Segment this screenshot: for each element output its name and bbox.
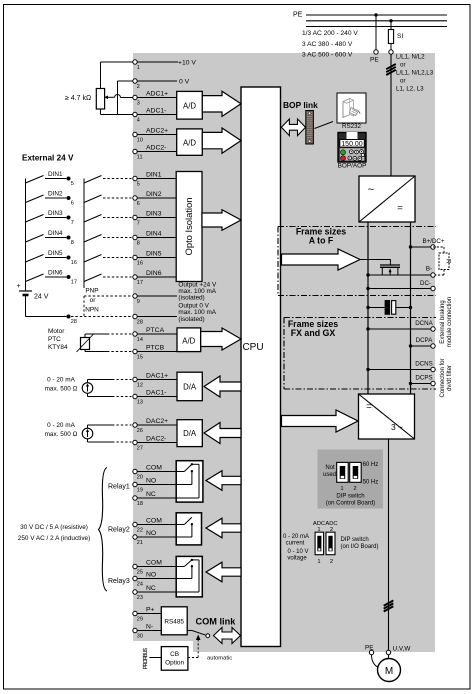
mains voltage text <box>302 30 358 59</box>
svg-text:(isolated): (isolated) <box>178 316 204 323</box>
terminal 8 (DIN4) <box>133 230 162 246</box>
label 50 Hz <box>363 480 379 486</box>
label ADC ADC <box>313 521 338 527</box>
svg-text:28: 28 <box>137 320 143 326</box>
label Connection for dv/dt filter (rotated) <box>440 358 453 397</box>
inverter block <box>359 394 415 439</box>
wire fuse to input terminal <box>390 44 392 50</box>
label RS232 <box>342 123 361 130</box>
terminal 11 (ADC2-) <box>133 144 167 160</box>
svg-text:PE: PE <box>293 12 303 19</box>
svg-text:or: or <box>400 62 406 69</box>
wire DIN1 to opto isolation <box>137 178 176 180</box>
terminal 29 (RS485 P+) <box>133 606 155 622</box>
svg-text:DIP switch: DIP switch <box>341 537 369 543</box>
terminal 28 (output 0V) <box>133 314 143 325</box>
svg-text:1: 1 <box>317 559 320 565</box>
svg-text:30: 30 <box>137 634 143 640</box>
wire DAC2- to D/A <box>137 442 177 444</box>
svg-text:250 V AC / 2 A (inductive): 250 V AC / 2 A (inductive) <box>18 535 90 542</box>
dashed wire CB option right <box>188 657 198 659</box>
svg-text:7: 7 <box>71 220 74 226</box>
terminal 14 (PTCA) <box>133 327 165 343</box>
label DCPS <box>415 375 432 382</box>
label Relay3 <box>108 578 130 585</box>
DIP switch 1 (control board) <box>337 462 349 482</box>
label DIP switch (on Control Board) <box>326 494 375 507</box>
terminal 30 (RS485 N-) <box>133 623 153 639</box>
svg-text:0 - 20 mA: 0 - 20 mA <box>283 534 309 540</box>
wire ADC2- to A/D <box>137 151 176 153</box>
wire DIN5 to opto isolation <box>137 257 176 259</box>
wire DC- line <box>368 288 431 290</box>
terminal U V W <box>386 650 390 654</box>
svg-text:27: 27 <box>137 446 143 452</box>
svg-text:~: ~ <box>368 184 374 196</box>
terminal 6 (DIN2) <box>133 191 162 207</box>
terminal 23 (relay3 NC) <box>133 585 156 601</box>
wire DCNA <box>368 328 431 330</box>
arrow CPU to relay1 <box>206 471 241 491</box>
CB option block <box>161 647 188 671</box>
svg-text:NO: NO <box>146 530 156 537</box>
svg-text:25: 25 <box>137 570 143 576</box>
terminal 7 (DIN3) <box>133 210 162 226</box>
wire N- to RS485 <box>137 630 161 632</box>
svg-text:24 V: 24 V <box>34 294 49 301</box>
terminal dot DIN6 bank1 <box>67 275 77 286</box>
gray panel notch bottom-left <box>133 641 193 652</box>
switch DIN3 bank2 <box>84 215 102 223</box>
label Motor PTC KTY84 <box>48 328 68 351</box>
dashed wire DIN6 <box>103 276 132 278</box>
terminal 24 (relay3 NO) <box>133 571 156 587</box>
arrow A/D1 to CPU <box>202 91 241 116</box>
svg-text:KTY84: KTY84 <box>48 344 68 351</box>
terminal 27 (DAC2-) <box>133 435 167 451</box>
svg-text:DAC1-: DAC1- <box>146 389 166 396</box>
svg-text:=: = <box>366 401 372 412</box>
label B+/DC+ <box>422 238 444 245</box>
D/A converter U5 (DAC2) <box>177 420 202 447</box>
terminal L/L1 input <box>389 50 393 54</box>
arrow CPU to braking chopper <box>282 249 361 270</box>
svg-text:15: 15 <box>137 355 143 361</box>
label input phase options <box>396 54 434 93</box>
svg-text:23: 23 <box>137 595 143 601</box>
svg-text:voltage: voltage <box>287 556 307 562</box>
wire mains input drop <box>390 54 392 176</box>
labels 1 2 above IO DIP <box>317 527 333 533</box>
svg-text:4: 4 <box>137 118 140 124</box>
svg-text:14: 14 <box>137 337 143 343</box>
junction B+ on right bus <box>409 245 412 248</box>
svg-text:B-: B- <box>426 266 432 273</box>
svg-text:DIN1: DIN1 <box>48 171 63 178</box>
label relay ratings <box>18 524 90 542</box>
terminal dot DIN5 bank1 <box>67 256 77 267</box>
label Output +24 V max 100 mA isolated <box>178 281 217 301</box>
svg-text:or: or <box>400 78 406 85</box>
RS485 block <box>161 607 187 635</box>
wire pot bottom to ADC1- <box>101 109 133 115</box>
junction on mains line 2 <box>389 19 392 22</box>
terminal 17 (DIN6) <box>133 270 162 286</box>
D/A converter U4 (DAC1) <box>177 372 202 401</box>
terminal 3 (ADC1+) <box>133 90 168 106</box>
DIP switch dark sub-panel <box>318 450 384 509</box>
labels 1 2 under control DIP <box>340 486 356 492</box>
switch DIN1 bank1 <box>26 171 67 183</box>
svg-text:DIN3: DIN3 <box>48 210 63 217</box>
label Frame sizes A to F <box>296 227 346 246</box>
svg-text:0 V: 0 V <box>179 79 190 86</box>
svg-text:DAC1+: DAC1+ <box>146 372 168 379</box>
svg-text:module connection: module connection <box>447 297 453 347</box>
CB option connector icon <box>143 647 149 669</box>
svg-text:ADC2+: ADC2+ <box>146 127 168 134</box>
battery 24 V <box>17 283 49 301</box>
svg-text:External 24 V: External 24 V <box>22 154 74 163</box>
dashed wire DIN2 <box>103 197 132 199</box>
dashed wire NPN to terminal 28 <box>71 316 132 318</box>
wire ADC2+ to A/D <box>137 134 176 136</box>
terminal 12 (DAC1+) <box>133 372 168 388</box>
junction DC- on left bus <box>366 287 369 290</box>
svg-text:NC: NC <box>146 585 156 592</box>
svg-text:3 AC 500 - 600 V: 3 AC 500 - 600 V <box>302 52 353 59</box>
terminal DC- <box>431 286 435 290</box>
svg-text:A to F: A to F <box>309 236 334 246</box>
switch automatic (COM link) <box>192 631 210 638</box>
svg-text:(isolated): (isolated) <box>178 295 204 302</box>
svg-text:Not: Not <box>325 465 335 471</box>
svg-text:DIN6: DIN6 <box>48 270 63 277</box>
svg-text:L/L1, N/L2: L/L1, N/L2 <box>396 54 425 61</box>
label B- <box>426 266 432 273</box>
label Not used <box>323 465 336 478</box>
svg-text:PTCA: PTCA <box>146 327 165 334</box>
BOP/AOP operator panel icon <box>338 132 366 162</box>
junction B- on left bus <box>366 273 369 276</box>
wire PTCA to A/D <box>137 333 177 335</box>
DIP switch 2 (control board) <box>350 462 362 482</box>
wire battery minus <box>26 295 67 317</box>
wire DAC1- to D/A <box>137 396 177 398</box>
svg-text:COM: COM <box>146 464 162 471</box>
label COM link <box>196 617 237 627</box>
wire RS485 to switch <box>187 630 192 632</box>
svg-text:17: 17 <box>71 280 77 286</box>
breaker slashes on mains input <box>386 64 396 75</box>
svg-text:Relay3: Relay3 <box>108 578 130 585</box>
svg-text:B+/DC+: B+/DC+ <box>422 238 444 245</box>
svg-text:M: M <box>385 666 393 677</box>
A/D converter U3 (PTC) <box>177 328 201 352</box>
svg-text:6: 6 <box>137 201 140 207</box>
wire +10V to potentiometer <box>101 62 133 89</box>
terminal 15 (PTCB) <box>133 344 165 360</box>
terminal 19 (relay1 NO) <box>133 477 156 493</box>
switch DIN5 bank1 <box>26 250 67 262</box>
CPU box <box>241 87 281 647</box>
arrow A/D2 to CPU <box>202 128 241 153</box>
svg-text:max. 500 Ω: max. 500 Ω <box>45 386 78 393</box>
label PE (terminal) <box>370 57 379 64</box>
svg-text:0 - 10 V: 0 - 10 V <box>287 549 308 555</box>
wire PTCB to A/D <box>137 351 177 353</box>
terminal 16 (DIN5) <box>133 250 162 266</box>
wire connector to CB option <box>149 657 161 659</box>
terminal 18 (relay1 NC) <box>133 491 156 507</box>
label 0 V <box>179 79 190 86</box>
junction on PE line <box>374 13 377 16</box>
svg-text:24: 24 <box>137 582 143 588</box>
label PNP or NPN <box>85 288 99 314</box>
dashed wire DIN5 <box>103 257 132 259</box>
wire P+ to RS485 <box>137 613 161 615</box>
svg-text:5: 5 <box>137 182 140 188</box>
label 0 - 20 mA current <box>283 534 309 547</box>
DIP switch 1 (I/O board) <box>315 532 324 555</box>
svg-text:22: 22 <box>137 528 143 534</box>
dashed vertical PNP-NPN <box>83 296 85 317</box>
switch DIN6 bank2 <box>84 274 102 282</box>
junction capacitor right <box>409 306 412 309</box>
terminal 4 (ADC1-) <box>133 107 167 123</box>
svg-text:26: 26 <box>137 428 143 434</box>
svg-text:NO: NO <box>146 477 156 484</box>
transistor Q1 braking chopper <box>380 265 400 275</box>
svg-text:8: 8 <box>137 241 140 247</box>
svg-text:8: 8 <box>71 240 74 246</box>
svg-text:12: 12 <box>137 383 143 389</box>
svg-text:External braking: External braking <box>440 300 446 343</box>
label DIP switch (on I/O Board) <box>341 537 379 550</box>
svg-text:DAC2+: DAC2+ <box>146 418 168 425</box>
RS232 connector icon box <box>337 93 366 123</box>
arrow CPU to relay2 <box>206 518 241 538</box>
svg-text:1: 1 <box>340 486 343 492</box>
svg-text:R: R <box>444 259 451 264</box>
svg-text:60 Hz: 60 Hz <box>363 462 379 468</box>
svg-text:+10 V: +10 V <box>178 60 196 67</box>
svg-text:ADC2-: ADC2- <box>146 144 166 151</box>
relay brace <box>99 468 108 592</box>
svg-text:Opto Isolation: Opto Isolation <box>183 198 194 256</box>
arrow CPU to D/A1 <box>204 376 241 397</box>
wire PE drop <box>375 15 377 50</box>
label automatic <box>207 656 232 662</box>
label +10 V <box>178 60 196 67</box>
svg-text:21: 21 <box>137 540 143 546</box>
mains line 3 <box>306 26 447 28</box>
DIN bank1 rail <box>25 179 27 290</box>
wire DCPA <box>411 345 431 347</box>
svg-text:SI: SI <box>397 33 403 40</box>
svg-text:current: current <box>286 541 305 547</box>
wire wiper with hop <box>104 95 133 100</box>
terminal DCNA <box>431 327 435 331</box>
svg-text:L1, L2, L3: L1, L2, L3 <box>396 86 424 93</box>
label DC- <box>420 280 431 287</box>
terminal 20 (relay1 COM) <box>133 464 162 480</box>
switch DIN4 bank2 <box>84 235 102 243</box>
svg-text:RS232: RS232 <box>342 123 361 130</box>
svg-text:10: 10 <box>137 138 143 144</box>
svg-text:DIN3: DIN3 <box>146 210 162 217</box>
wire DIN6 to opto isolation <box>137 276 176 278</box>
labels 1 2 under IO DIP <box>317 559 333 565</box>
label Output 0 V max 100 mA isolated <box>178 302 216 322</box>
svg-text:2: 2 <box>330 559 333 565</box>
svg-text:U,V,W: U,V,W <box>393 646 412 653</box>
svg-text:Connection for: Connection for <box>440 358 446 397</box>
svg-text:0 - 20 mA: 0 - 20 mA <box>47 422 75 429</box>
wire DAC1+ to D/A <box>137 379 177 381</box>
svg-text:BOP link: BOP link <box>283 100 318 110</box>
svg-text:Motor: Motor <box>48 328 65 335</box>
terminal 9 (output +24V) <box>133 294 140 305</box>
svg-text:DCNS: DCNS <box>415 361 433 368</box>
svg-text:A/D: A/D <box>182 337 195 346</box>
terminal 22 (relay2 COM) <box>133 517 162 533</box>
DC bus right wire <box>410 222 412 394</box>
label CPU <box>242 342 263 353</box>
svg-text:DIP switch: DIP switch <box>336 494 364 500</box>
svg-text:DIN2: DIN2 <box>146 191 162 198</box>
dashed wire DIN4 <box>103 237 132 239</box>
label DCPA <box>416 337 434 344</box>
A/D converter U1 (ADC1) <box>177 91 203 119</box>
svg-text:20: 20 <box>137 475 143 481</box>
svg-text:17: 17 <box>137 280 143 286</box>
svg-text:PTCB: PTCB <box>146 344 165 351</box>
wire ADC1- to A/D <box>137 114 176 116</box>
label Relay1 <box>108 484 130 491</box>
label 0-20mA 500 Ohm (DAC1) <box>45 377 78 393</box>
svg-text:PE: PE <box>370 57 379 64</box>
pointer line connector to RS232 <box>315 122 334 129</box>
svg-text:CB: CB <box>170 651 179 658</box>
breaker slashes on motor wire <box>384 601 394 612</box>
label PE (top left of mains lines) <box>293 12 303 19</box>
svg-text:COM link: COM link <box>196 617 237 627</box>
wire terminal 9 <box>137 295 177 297</box>
svg-text:DC-: DC- <box>420 280 431 287</box>
svg-text:CPU: CPU <box>242 342 263 353</box>
capacitor C1 plate (outline) <box>392 301 396 315</box>
wire B+ to terminal <box>411 246 431 248</box>
dashed wire B+ to R <box>433 247 444 253</box>
svg-text:PNP: PNP <box>85 288 98 295</box>
resistor R external braking (dashed) <box>439 253 451 270</box>
label PE (output) <box>365 645 374 652</box>
wire DCNS <box>368 369 431 371</box>
terminal 1 (+10 V) <box>133 60 140 71</box>
label DCNS <box>415 361 433 368</box>
terminal dot DIN3 bank1 <box>67 216 74 227</box>
svg-text:2: 2 <box>353 486 356 492</box>
junction capacitor left <box>366 306 369 309</box>
BOP link double arrow <box>281 119 305 136</box>
rectifier block <box>359 176 415 222</box>
terminal 21 (relay2 NO) <box>133 530 156 546</box>
svg-text:NC: NC <box>146 491 156 498</box>
arrow opto isolation to CPU <box>202 210 241 231</box>
svg-text:A/D: A/D <box>183 102 196 111</box>
wire 0V feed <box>118 81 133 115</box>
svg-text:N-: N- <box>146 623 153 630</box>
switch DIN4 bank1 <box>26 230 67 242</box>
DC bus left wire <box>367 222 369 394</box>
svg-text:5: 5 <box>71 181 74 187</box>
svg-text:150.00: 150.00 <box>341 141 363 148</box>
svg-text:50 Hz: 50 Hz <box>363 480 379 486</box>
label BOP/AOP <box>338 163 367 170</box>
label DCNA <box>415 320 433 327</box>
arrow A/D PTC to CPU <box>201 328 241 350</box>
svg-text:D/A: D/A <box>183 383 197 392</box>
wire to fuse <box>390 21 392 30</box>
switch DIN3 bank1 <box>26 210 67 222</box>
frame sizes FX and GX dash-dot box <box>284 318 436 390</box>
terminal 25 (relay3 COM) <box>133 559 162 575</box>
wire ADC1+ to A/D <box>137 97 176 99</box>
svg-text:PTC: PTC <box>48 336 61 343</box>
DIN bank2 rail <box>83 179 85 289</box>
label >= 4.7 kOhm <box>65 95 91 102</box>
svg-text:DIN5: DIN5 <box>146 250 162 257</box>
terminal DCPS <box>431 381 435 385</box>
terminal DCPA <box>431 344 435 348</box>
svg-text:NO: NO <box>146 571 156 578</box>
svg-text:DCPA: DCPA <box>416 337 434 344</box>
svg-text:DIN6: DIN6 <box>146 270 162 277</box>
capacitor C1 plate (filled) <box>385 300 390 315</box>
svg-text:3 AC 380 - 480 V: 3 AC 380 - 480 V <box>302 41 353 48</box>
svg-text:30 V DC / 5 A (resistive): 30 V DC / 5 A (resistive) <box>20 524 88 531</box>
terminal dot DIN1 bank1 <box>67 177 74 188</box>
relay K1 (changeover contact) <box>137 461 203 502</box>
junction DCNS <box>366 368 369 371</box>
label BOP link <box>283 100 318 110</box>
terminal DCNS <box>431 367 435 371</box>
svg-text:16: 16 <box>71 260 77 266</box>
relay K3 (changeover contact) <box>137 556 202 597</box>
svg-text:DIN1: DIN1 <box>146 171 162 178</box>
junction DCPA <box>409 344 412 347</box>
svg-text:DIN5: DIN5 <box>48 250 63 257</box>
label SI <box>397 33 403 40</box>
svg-text:ADC1+: ADC1+ <box>146 90 168 97</box>
frame sizes A to F dash-dot box <box>278 227 436 296</box>
svg-text:D/A: D/A <box>183 429 197 438</box>
wire +10 V <box>137 61 178 63</box>
wire PTCA external <box>85 334 132 338</box>
wire terminal 28 <box>137 316 177 318</box>
svg-text:COM: COM <box>146 559 162 566</box>
svg-text:(on I/O Board): (on I/O Board) <box>341 544 379 550</box>
arrow CPU to relay3 <box>206 562 241 582</box>
svg-text:16: 16 <box>137 261 143 267</box>
svg-text:FX and GX: FX and GX <box>291 328 336 338</box>
svg-text:Option: Option <box>165 660 184 667</box>
svg-text:Relay1: Relay1 <box>108 484 130 491</box>
svg-text:(on Control Board): (on Control Board) <box>326 501 375 507</box>
svg-text:RS485: RS485 <box>164 619 184 626</box>
svg-text:9: 9 <box>137 299 140 305</box>
